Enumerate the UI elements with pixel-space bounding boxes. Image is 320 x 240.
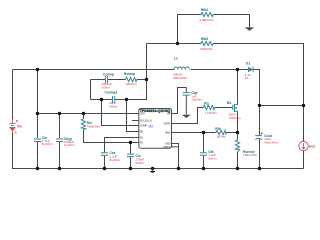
svg-text:COMP: COMP: [140, 124, 148, 127]
wire Vin column upper: [12, 70, 14, 120]
wire Cbp bottom to ground arrow: [185, 95, 187, 115]
wire DIS_EN_N stub: [132, 120, 139, 122]
node switch junction L1-D1-M1: [236, 68, 239, 71]
wire Cfb column: [203, 133, 205, 153]
svg-text:VDD: VDD: [140, 112, 145, 115]
svg-text:L1: L1: [174, 57, 178, 61]
node VDD rail Rrc junction: [82, 112, 85, 115]
svg-text:Rfb2: Rfb2: [201, 37, 208, 41]
node ground Cin junction: [36, 167, 39, 170]
capacitor Cbyp: [56, 139, 63, 142]
node ISNS Cfb junction: [202, 131, 205, 134]
wire VDD rail: [38, 113, 139, 115]
svg-text:500mOhm: 500mOhm: [173, 76, 188, 80]
svg-text:Ccomp2: Ccomp2: [105, 91, 118, 95]
node ground Rsense junction: [236, 167, 239, 170]
svg-text:1kOhm: 1kOhm: [216, 135, 226, 139]
svg-text:160mOhm: 160mOhm: [243, 153, 258, 157]
svg-text:768kOhm: 768kOhm: [87, 124, 101, 128]
wire Crc column: [130, 143, 132, 154]
wire D1 cathode to output corner: [254, 70, 260, 106]
node ground Cfb junction: [202, 167, 205, 170]
capacitor Ccomp2: [113, 96, 115, 103]
wire Rrc column bottom to RC row: [84, 130, 139, 143]
wire Rfb2 row: [147, 43, 202, 45]
node FB comp-network junction: [125, 98, 128, 101]
svg-text:DIS_EN_N: DIS_EN_N: [140, 119, 152, 122]
ground arrow at Cbp: [182, 115, 191, 118]
wire Rfb1 column: [178, 15, 202, 44]
capacitor Crc: [127, 154, 134, 157]
inductor L1: [174, 67, 189, 70]
resistor Rfb: [216, 130, 226, 134]
resistor Rrc: [81, 119, 85, 130]
wire switch column M1 drain: [237, 70, 239, 105]
node RC row Crc junction: [129, 141, 132, 144]
wire FB pin to network: [127, 100, 139, 132]
wire Cbyp column: [59, 114, 61, 139]
capacitor Ccomp: [105, 76, 107, 83]
wire comp network left vertical: [90, 80, 92, 100]
node Vout Cout junction: [258, 104, 261, 107]
wire COMP pin to network: [102, 100, 139, 126]
node Vin top rail junction: [36, 68, 39, 71]
capacitor Cout polarized: [255, 132, 263, 139]
resistor Rsense: [235, 140, 239, 152]
wire top row Vin to L1: [13, 69, 175, 71]
capacitor Cbp: [183, 93, 190, 96]
capacitor Css: [101, 153, 108, 156]
wire Vin column lower: [13, 133, 304, 169]
svg-text:1mOhm: 1mOhm: [191, 98, 202, 102]
wire comp top path right: [137, 79, 147, 81]
resistor Rfb2: [201, 41, 214, 45]
wire comp bottom path left: [91, 99, 113, 101]
ground symbol on rail: [150, 167, 155, 173]
wire Rsense bottom: [237, 152, 239, 169]
node ISNS Rsense junction: [236, 131, 239, 134]
capacitor Cfb: [200, 153, 207, 156]
svg-text:Rg: Rg: [204, 102, 208, 106]
wire FB node vertical to Rfb2 row: [146, 44, 148, 80]
wire BP chain: [172, 88, 187, 114]
wire comp top path mid: [108, 79, 126, 81]
node ground IC GND junction: [177, 167, 180, 170]
wire GND PWPD: [172, 144, 179, 169]
svg-text:U1: U1: [149, 124, 153, 128]
transistor M1: [233, 104, 238, 112]
svg-text:Rcomp: Rcomp: [124, 72, 135, 76]
op-amp controller U1 TPS40210-Q1DGQ body: [139, 109, 172, 149]
wire Iout column: [303, 106, 305, 142]
wire GDRV row: [172, 108, 204, 124]
node comp network right junction: [145, 78, 148, 81]
wire Rfb1 right to arrow: [214, 15, 250, 28]
wire comp top path left: [91, 79, 106, 81]
svg-text:0Ohm: 0Ohm: [136, 161, 145, 165]
svg-text:0Ohm: 0Ohm: [208, 156, 217, 160]
svg-text:ISNS: ISNS: [165, 131, 171, 134]
svg-text:8mOhm: 8mOhm: [110, 158, 121, 162]
svg-text:7.15Ohm: 7.15Ohm: [205, 111, 218, 115]
node Vout Iout junction: [302, 104, 305, 107]
svg-text:BP: BP: [167, 112, 171, 115]
capacitor Cin: [34, 139, 41, 142]
svg-text:Ccomp: Ccomp: [103, 72, 114, 76]
wire M1 source to Rfb node: [237, 111, 239, 140]
node VDD rail Cin junction: [36, 112, 39, 115]
svg-text:1mOhm: 1mOhm: [64, 143, 75, 147]
svg-text:RC: RC: [140, 141, 144, 144]
current source Iout: [299, 141, 308, 150]
svg-text:Rfb1: Rfb1: [201, 8, 208, 12]
svg-text:GDRV: GDRV: [164, 122, 171, 125]
wire ISNS row: [172, 132, 217, 134]
svg-text:0Ohm: 0Ohm: [101, 86, 110, 90]
svg-text:0.5Amps: 0.5Amps: [229, 116, 242, 120]
wire output cap column: [259, 106, 261, 136]
diode D1: [248, 67, 253, 73]
wire Vout sense row: [260, 105, 304, 107]
node ground Cout junction: [258, 167, 261, 170]
wire Cin column: [37, 70, 39, 139]
ground arrow at Rfb1: [245, 27, 255, 31]
svg-text:0Ohm: 0Ohm: [109, 105, 118, 109]
resistor Rg: [203, 105, 215, 109]
resistor Rcomp: [126, 77, 137, 81]
svg-text:PWPD: PWPD: [163, 146, 170, 149]
svg-text:400mOhm: 400mOhm: [264, 140, 279, 144]
svg-text:Rfb: Rfb: [215, 127, 220, 131]
voltage source Vin: [10, 119, 19, 133]
resistor Rfb1: [201, 12, 214, 16]
svg-text:Vin: Vin: [17, 124, 22, 128]
wire SS row and Css column: [105, 138, 139, 153]
svg-text:M1: M1: [227, 101, 232, 105]
node ground Crc junction: [129, 167, 132, 170]
svg-text:5mOhm: 5mOhm: [42, 142, 53, 146]
wire Rg to gate: [215, 107, 233, 109]
wire Rrc column top: [83, 114, 85, 119]
node ground Css junction: [103, 167, 106, 170]
svg-text:4.99kOhm: 4.99kOhm: [199, 18, 214, 22]
svg-text:301kOhm: 301kOhm: [200, 47, 214, 51]
wire comp bottom path right: [115, 80, 146, 100]
svg-text:Iout: Iout: [309, 144, 316, 148]
svg-text:10kOhm: 10kOhm: [125, 82, 137, 86]
svg-text:FB: FB: [140, 130, 143, 133]
node Rfb1-Rfb2 divider junction: [176, 42, 179, 45]
node ground Cbyp junction: [58, 167, 61, 170]
svg-text:SS: SS: [140, 136, 144, 139]
svg-text:D1: D1: [246, 62, 250, 66]
wire switch node row: [191, 69, 249, 71]
node VDD rail Cbyp junction: [58, 112, 61, 115]
node COMP comp-network junction: [100, 98, 103, 101]
